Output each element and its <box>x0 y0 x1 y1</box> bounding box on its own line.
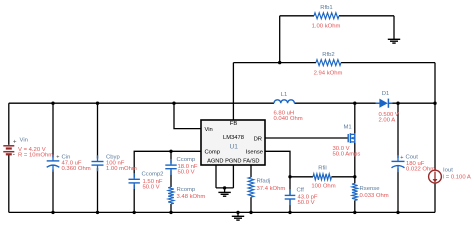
node Rfadj bot <box>249 211 252 214</box>
wire <box>294 102 379 104</box>
wire <box>232 63 234 120</box>
wire <box>332 176 355 178</box>
value Ccomp2b <box>143 185 160 191</box>
label L1 <box>281 92 288 98</box>
wire <box>354 103 356 134</box>
label LM3478 <box>223 135 244 141</box>
value Vin R <box>18 152 53 158</box>
wire <box>250 197 252 212</box>
node M1 drain <box>353 102 356 105</box>
wire <box>9 211 435 213</box>
svg-text:AGND PGND FA/SD: AGND PGND FA/SD <box>207 159 259 165</box>
wire <box>289 177 291 195</box>
svg-text:Ccomp: Ccomp <box>177 157 196 163</box>
wire <box>52 170 54 213</box>
capacitor Cff <box>285 189 296 205</box>
wire <box>290 176 313 178</box>
svg-text:2.00 A: 2.00 A <box>379 118 396 124</box>
value Rfil <box>311 183 335 189</box>
svg-text:Rfb1: Rfb1 <box>320 5 332 11</box>
label Rcomp <box>177 187 196 193</box>
value L1b <box>274 116 303 122</box>
node Cbyp bot <box>96 211 99 214</box>
label U1 <box>229 143 238 150</box>
value Cbyp1 <box>106 161 125 167</box>
svg-text:LM3478: LM3478 <box>223 135 244 141</box>
node agnd <box>223 186 226 189</box>
svg-text:0.040 Ohm: 0.040 Ohm <box>274 116 303 122</box>
pin Isense <box>246 150 263 156</box>
node FB <box>278 61 281 64</box>
label Cff <box>297 188 305 194</box>
node Cbyp top <box>96 102 99 105</box>
svg-text:50.0 V: 50.0 V <box>298 200 315 206</box>
wire <box>8 155 10 212</box>
svg-text:Rfadj: Rfadj <box>257 179 271 185</box>
node Rcomp bot <box>169 211 172 214</box>
label D1 <box>382 91 390 97</box>
value Cin2 <box>62 166 91 172</box>
wire <box>232 165 234 188</box>
value Cbyp2 <box>106 166 137 172</box>
resistor Rfadj <box>248 177 254 197</box>
svg-text:FB: FB <box>230 121 238 127</box>
label Rfb1 <box>320 5 332 11</box>
resistor Rcomp <box>168 187 174 204</box>
label Cin plus <box>56 154 59 160</box>
wire <box>339 15 394 17</box>
svg-text:1.00 kOhm: 1.00 kOhm <box>312 24 341 30</box>
capacitor Cin <box>47 155 60 172</box>
value M1b <box>333 151 361 157</box>
value Coutb <box>406 166 435 172</box>
resistor Rfb1 <box>314 13 339 19</box>
wire <box>265 137 348 139</box>
svg-text:Vin: Vin <box>205 127 213 133</box>
value Rcomp <box>177 194 206 200</box>
label Rfadj <box>257 179 271 185</box>
label Ccomp <box>177 157 196 163</box>
label Iout <box>443 167 453 173</box>
node Cin bot <box>51 211 54 214</box>
wire <box>434 183 436 212</box>
value L1a <box>274 110 295 116</box>
wire <box>341 62 435 64</box>
svg-text:Cout: Cout <box>406 155 419 161</box>
svg-text:2.94 kOhm: 2.94 kOhm <box>314 70 343 76</box>
node Cin top <box>51 102 54 105</box>
value Rfb1 <box>312 24 341 30</box>
svg-text:Rfb2: Rfb2 <box>322 52 334 58</box>
pin FB <box>230 121 238 127</box>
wire <box>174 103 201 128</box>
value Cffb <box>298 200 315 206</box>
wire <box>397 168 399 212</box>
wire <box>354 142 356 184</box>
inductor L1 <box>274 100 294 103</box>
node Rsense bot <box>353 211 356 214</box>
pin AGND PGND FA/SD <box>207 159 259 165</box>
svg-text:DR: DR <box>254 136 262 142</box>
wire <box>133 185 135 213</box>
capacitor Ccomp <box>165 159 176 175</box>
capacitor Cout <box>392 155 405 172</box>
battery Vin <box>3 145 14 155</box>
node Ccomp2 bot <box>133 211 136 214</box>
wire <box>279 16 281 63</box>
wire <box>354 200 356 212</box>
battery Vin plus <box>13 139 17 145</box>
pin Vin <box>205 127 213 133</box>
wire <box>170 170 172 187</box>
transistor M1 <box>348 133 355 143</box>
wire <box>280 15 314 17</box>
value Rfadj <box>257 186 286 192</box>
op-amp U1 LM3478 body <box>201 120 265 165</box>
label M1 <box>344 124 352 130</box>
svg-text:+: + <box>400 155 403 161</box>
svg-text:I = 0.100 A: I = 0.100 A <box>443 174 471 180</box>
wire <box>134 151 201 177</box>
label Rsense <box>360 186 381 192</box>
label Rfil <box>318 165 327 171</box>
wire <box>289 200 291 213</box>
wire <box>397 103 399 158</box>
svg-text:+: + <box>56 154 59 160</box>
resistor Rfb2 <box>316 60 341 66</box>
svg-text:0.033 Ohm: 0.033 Ohm <box>360 193 389 199</box>
capacitor Cbyp <box>92 155 104 171</box>
value D1a <box>379 112 399 118</box>
pin Comp <box>205 150 220 156</box>
svg-text:D1: D1 <box>382 91 390 97</box>
node Vout <box>433 102 436 105</box>
wire <box>434 63 436 104</box>
value Ccomp2a <box>143 179 163 185</box>
value Cffa <box>298 195 318 201</box>
svg-text:U1: U1 <box>229 143 238 150</box>
svg-text:50.0 Amps: 50.0 Amps <box>333 151 361 157</box>
value D1b <box>379 118 396 124</box>
svg-text:1.00 mOhm: 1.00 mOhm <box>106 166 137 172</box>
battery Vin minus <box>13 151 16 158</box>
ground <box>218 188 230 196</box>
svg-text:3.48 kOhm: 3.48 kOhm <box>177 194 206 200</box>
label Cin <box>62 154 71 160</box>
label Vin <box>20 138 28 144</box>
svg-text:Iout: Iout <box>443 167 453 173</box>
svg-text:Rcomp: Rcomp <box>177 187 196 193</box>
node Cff <box>288 175 291 178</box>
label Cout <box>406 155 419 161</box>
svg-text:-: - <box>13 151 16 158</box>
wire <box>434 103 436 170</box>
node Rfil right <box>353 175 356 178</box>
node comp <box>169 150 172 153</box>
pin DR <box>254 136 262 142</box>
wire <box>52 103 54 157</box>
wire <box>265 151 290 177</box>
wire <box>215 165 217 188</box>
value Rsense <box>360 193 389 199</box>
svg-text:Vin: Vin <box>20 138 28 144</box>
svg-text:0.360 Ohm: 0.360 Ohm <box>62 166 91 172</box>
svg-text:Isense: Isense <box>246 150 263 156</box>
svg-text:100 Ohm: 100 Ohm <box>311 183 335 189</box>
value Vin V <box>18 147 46 153</box>
wire <box>170 151 172 163</box>
label Rfb2 <box>322 52 334 58</box>
value Iout <box>443 174 471 180</box>
diode D1 <box>376 99 393 108</box>
wire <box>216 187 233 189</box>
value Cin1 <box>62 161 82 167</box>
wire <box>8 103 10 145</box>
node Cff bot <box>288 211 291 214</box>
svg-text:Cff: Cff <box>297 188 305 194</box>
value Ccompa <box>178 164 198 170</box>
svg-text:37.4 kOhm: 37.4 kOhm <box>257 186 286 192</box>
value Couta <box>406 161 425 167</box>
svg-text:Comp: Comp <box>205 150 220 156</box>
value Rfb2 <box>314 70 343 76</box>
svg-text:50.0 V: 50.0 V <box>178 170 195 176</box>
wire <box>389 102 435 104</box>
svg-text:Rfil: Rfil <box>318 165 327 171</box>
node Vin pin <box>172 102 175 105</box>
svg-text:+: + <box>13 139 17 145</box>
wire <box>233 62 316 64</box>
wire <box>97 103 99 158</box>
wire <box>9 102 274 104</box>
svg-text:L1: L1 <box>281 92 288 98</box>
svg-text:Cin: Cin <box>62 154 71 160</box>
label Cout plus <box>400 155 403 161</box>
resistor Rsense <box>352 183 358 200</box>
ground <box>232 212 244 220</box>
node Cout top <box>396 102 399 105</box>
node gnd rail <box>236 211 239 214</box>
ground <box>388 16 400 43</box>
label Ccomp2 <box>142 171 164 177</box>
wire <box>250 165 252 177</box>
svg-text:Ccomp2: Ccomp2 <box>142 171 164 177</box>
resistor Rfil <box>313 174 332 180</box>
wire <box>97 168 99 212</box>
capacitor Ccomp2 <box>129 173 140 189</box>
svg-text:Cbyp: Cbyp <box>106 154 120 160</box>
svg-text:M1: M1 <box>344 124 352 130</box>
node Cout bot <box>396 211 399 214</box>
value M1a <box>333 146 350 152</box>
current source Iout <box>429 170 442 183</box>
svg-text:50.0 V: 50.0 V <box>143 185 160 191</box>
label Cbyp <box>106 154 120 160</box>
wire <box>170 204 172 212</box>
value Ccompb <box>178 170 195 176</box>
svg-text:R = 10mOhm: R = 10mOhm <box>18 152 53 158</box>
svg-text:Rsense: Rsense <box>360 186 381 192</box>
